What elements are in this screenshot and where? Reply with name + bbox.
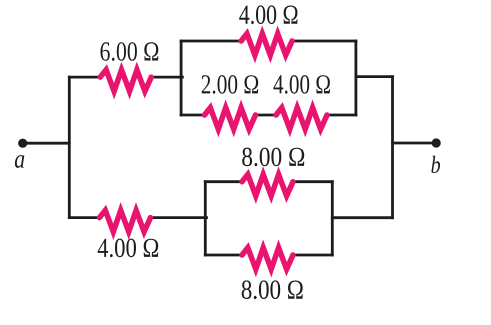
- wire: bottom box top edge, right of R 8.00: [292, 180, 333, 183]
- wire: left vertical bus: [68, 77, 71, 218]
- resistor R 4.00 ohm (top box, top edge): [241, 34, 292, 56]
- wire: bottom box bottom edge, left of R 8.00: [205, 254, 243, 257]
- wire: bottom box top edge, left of R 8.00: [205, 180, 243, 183]
- wire: top branch, left of R 6.00: [69, 76, 101, 79]
- resistor R 2.00 ohm (top box, bottom edge left): [205, 108, 256, 130]
- wire: top branch, R 6.00 to top box left edge: [150, 76, 182, 79]
- wire: terminal b lead: [393, 142, 434, 145]
- label terminal a: [15, 155, 24, 168]
- wire: bottom branch, R 4.00 to bottom box left edge: [149, 216, 206, 219]
- wire: top box right edge: [354, 41, 357, 115]
- wire: bottom box right edge: [331, 182, 334, 255]
- label 8.00 ohm (bottom box top): [242, 148, 304, 167]
- label 4.00 ohm (top box top): [239, 5, 297, 24]
- label 6.00 ohm: [101, 42, 159, 61]
- resistor R 8.00 ohm (bottom box, top edge): [242, 174, 293, 196]
- wire: top box top edge, left of R 4.00: [181, 40, 242, 43]
- resistor R 4.00 ohm (top box, bottom edge right): [276, 108, 327, 130]
- wire: terminal a lead: [23, 142, 70, 145]
- wire: bottom box bottom edge, right of R 8.00: [292, 254, 333, 257]
- label 4.00 ohm (bottom branch): [98, 239, 159, 258]
- wire: bottom branch, left of R 4.00: [69, 216, 101, 219]
- resistor R 8.00 ohm (bottom box, bottom edge): [242, 248, 293, 270]
- label 8.00 ohm (bottom box bottom): [242, 280, 303, 299]
- wire: top box bottom edge, left of R 2.00: [181, 114, 206, 117]
- wire: right vertical bus: [391, 77, 394, 218]
- wire: bottom box output to right bus: [332, 216, 392, 219]
- wire: top box bottom edge, between R 2.00 and R 4.00: [255, 114, 278, 117]
- terminal a dot: [18, 139, 27, 148]
- resistor R 4.00 ohm (bottom branch): [100, 210, 151, 232]
- wire: bottom box left edge: [204, 182, 207, 255]
- wire: top box bottom edge, right of R 4.00: [326, 114, 356, 117]
- wire: top box top edge, right of R 4.00: [291, 40, 356, 43]
- terminal b dot: [432, 138, 441, 147]
- label terminal b: [431, 156, 440, 173]
- wire: top box output to right bus: [356, 75, 393, 78]
- label 4.00 ohm (top box bottom): [273, 75, 330, 94]
- wire: top box left edge: [180, 41, 183, 115]
- label 2.00 ohm: [202, 75, 259, 94]
- resistor R 6.00 ohm (top branch): [100, 70, 151, 92]
